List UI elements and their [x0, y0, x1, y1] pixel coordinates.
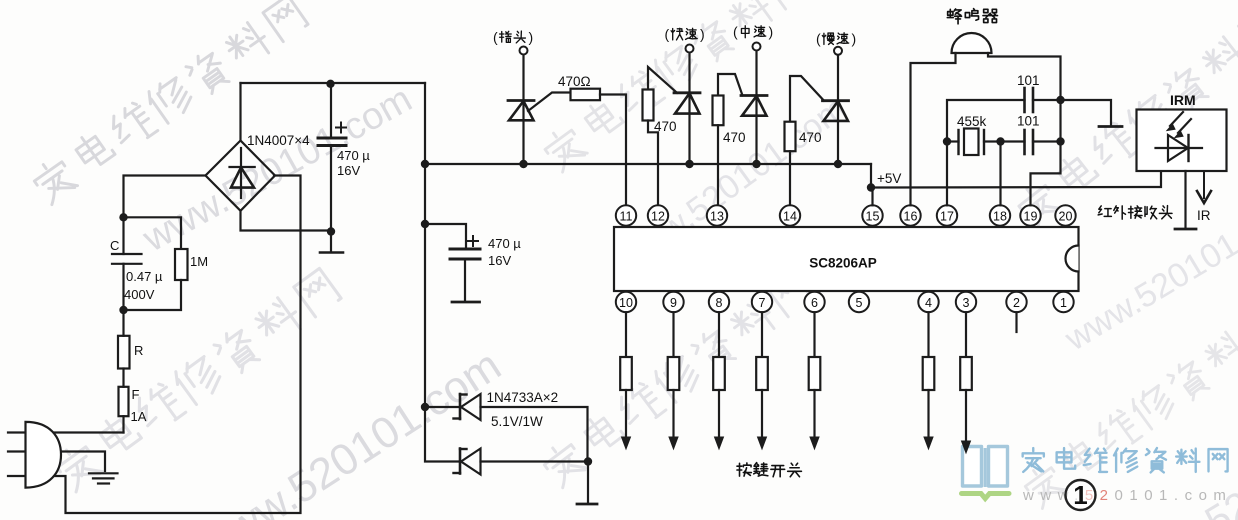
- svg-text:5.1V/1W: 5.1V/1W: [491, 414, 543, 429]
- wire: pin 18 to crystal: [999, 142, 1001, 206]
- svg-text:16: 16: [904, 209, 918, 223]
- wire: bridge + output to top rail: [239, 83, 241, 141]
- ground: zener ground: [587, 462, 589, 504]
- pin 7: [752, 292, 772, 312]
- node: rail/C2 junction: [421, 220, 429, 228]
- wire: +5V rail to IRM: [871, 171, 1161, 188]
- svg-text:13: 13: [710, 209, 724, 223]
- svg-text:470: 470: [723, 130, 746, 145]
- svg-text:F: F: [132, 387, 140, 402]
- arrow to key switch: [813, 390, 815, 439]
- svg-text:): ): [769, 24, 774, 40]
- pin 2: [1006, 292, 1026, 312]
- wire: mains bottom prong / bottom rail up to bridge: [8, 176, 301, 514]
- wire: bridge - output to C1: [241, 211, 332, 231]
- ground: oscillator ground bar: [1099, 125, 1122, 128]
- gate wire SCR3: [718, 74, 743, 96]
- terminal circle: fan output: [686, 45, 694, 53]
- svg-text:470 µ: 470 µ: [337, 148, 370, 163]
- svg-text:IR: IR: [1197, 208, 1211, 223]
- pin 20: [1055, 205, 1075, 225]
- svg-text:470: 470: [799, 130, 822, 145]
- svg-text:400V: 400V: [124, 287, 155, 302]
- node: rail/zener junction: [421, 403, 429, 411]
- IRM module box: [1137, 110, 1227, 172]
- svg-text:101: 101: [1017, 114, 1040, 129]
- pin 16: [900, 205, 920, 225]
- crystal X 455k: [964, 129, 979, 156]
- svg-text:3: 3: [963, 296, 970, 310]
- capacitor 101 top: [1023, 88, 1026, 112]
- wire: IRM output lead down: [1184, 171, 1186, 228]
- node: crystal left: [943, 137, 951, 145]
- svg-text:IRM: IRM: [1170, 92, 1196, 108]
- node: zener cathode junction: [584, 457, 592, 465]
- svg-text:9: 9: [670, 296, 677, 310]
- svg-text:R: R: [134, 343, 143, 358]
- pin 15: [862, 205, 882, 225]
- svg-text:470Ω: 470Ω: [558, 74, 591, 89]
- key-switch resistor at pin x=626: [625, 312, 627, 357]
- wire: pin 2 stub: [1015, 312, 1017, 332]
- resistor 470 (SCR3 gate): [713, 96, 724, 126]
- arrow to key switch: [761, 390, 763, 439]
- pin 4: [918, 292, 938, 312]
- svg-text:0.47 µ: 0.47 µ: [126, 269, 163, 284]
- svg-text:1: 1: [1060, 296, 1067, 310]
- svg-text:(: (: [493, 29, 498, 45]
- svg-text:101: 101: [1017, 73, 1040, 88]
- resistor R: [118, 336, 130, 369]
- node: SCR anode on bus: [519, 160, 527, 168]
- svg-text:16V: 16V: [488, 253, 511, 268]
- wire: mains top prong to fuse: [8, 431, 124, 433]
- thyristor at x=689.5: [674, 91, 700, 94]
- svg-text:1N4007×4: 1N4007×4: [247, 133, 310, 148]
- node: top rail / C1: [326, 80, 334, 88]
- photodiode inside IRM: [1156, 147, 1203, 149]
- svg-text:): ): [700, 26, 705, 42]
- resistor 470 ohm (SCR1 gate): [571, 89, 601, 101]
- pin 17: [937, 205, 957, 225]
- key-switch resistor at pin x=762: [761, 312, 763, 357]
- resistor 1M: [124, 217, 182, 249]
- svg-text:www.520101.com: www.520101.com: [1058, 187, 1238, 358]
- ground: IRM ground: [1175, 228, 1196, 231]
- node: +5V node: [867, 183, 875, 191]
- node: SCR anode on bus: [834, 160, 842, 168]
- pin 10: [616, 292, 636, 312]
- wire: bridge AC left: [124, 176, 206, 218]
- logo book icon: [963, 447, 982, 487]
- wire: pin 17 to crystal: [946, 142, 948, 206]
- svg-text:C: C: [110, 238, 119, 253]
- svg-text:8: 8: [716, 296, 723, 310]
- svg-text:(: (: [665, 26, 670, 42]
- zener D2 1N4733A: [425, 407, 460, 462]
- resistor 470 (SCR4 gate): [785, 122, 796, 152]
- svg-text:): ): [529, 29, 534, 45]
- gate wire SCR1 to R 470ohm: [528, 93, 571, 112]
- key-switch resistor at pin x=719: [718, 312, 720, 357]
- gate wire SCR2: [648, 67, 677, 93]
- node: caps right top: [1056, 96, 1064, 104]
- terminal circle: fan output: [834, 47, 842, 55]
- pin 14: [780, 205, 800, 225]
- bridge rectifier 1N4007 x4: [206, 141, 276, 211]
- pin 1: [1053, 292, 1073, 312]
- svg-text:17: 17: [940, 209, 954, 223]
- arrow: IR indicator: [1203, 171, 1205, 198]
- thyristor at x=523.5: [508, 99, 534, 102]
- capacitor C2 470u 16V electrolytic: [425, 224, 466, 249]
- arrow to key switch (pin 3, over logo): [962, 390, 971, 453]
- svg-text:1N4733A×2: 1N4733A×2: [487, 390, 559, 405]
- svg-text:12: 12: [651, 209, 665, 223]
- wire: top cap node to ground: [1061, 100, 1112, 126]
- wire: 470 to pin 13: [717, 125, 719, 205]
- capacitor 101 bottom: [1023, 130, 1026, 154]
- IC U1 SC8206AP: [614, 227, 1079, 291]
- buzzer: [952, 33, 992, 53]
- thyristor at x=838: [823, 99, 849, 102]
- svg-text:16V: 16V: [337, 163, 360, 178]
- wire: +V bus to SCR anodes: [425, 163, 871, 165]
- node: rail/bus junction: [421, 160, 429, 168]
- node: C1 negative: [327, 227, 335, 235]
- svg-text:SC8206AP: SC8206AP: [809, 256, 877, 271]
- circled 1 figure number: [1066, 480, 1096, 510]
- svg-text:6: 6: [811, 296, 818, 310]
- svg-text:7: 7: [759, 296, 766, 310]
- label: infrared receiver: [1098, 206, 1111, 217]
- wire: +5V to pin 15: [871, 188, 873, 206]
- ground: C1 ground bar: [330, 232, 332, 252]
- wire: R top to C node: [122, 310, 124, 336]
- wire: 470 to pin 14: [789, 151, 791, 205]
- thyristor at x=756.5: [741, 94, 767, 97]
- svg-text:19: 19: [1024, 209, 1038, 223]
- svg-text:20: 20: [1059, 209, 1073, 223]
- plug P1 (AC plug body): [26, 422, 62, 488]
- zener D1 1N4733A: [425, 406, 460, 408]
- node: crystal right: [996, 137, 1004, 145]
- wire: 470ohm to pin 11: [600, 95, 626, 206]
- wire: buzzer right to caps: [988, 53, 1061, 100]
- logo text: [1023, 448, 1044, 472]
- label: key switches: [737, 463, 751, 476]
- capacitor C1 470u 16V electrolytic: [330, 83, 332, 138]
- pin 12: [648, 205, 668, 225]
- svg-text:): ): [852, 31, 857, 47]
- key-switch resistor at pin x=673.5: [672, 312, 674, 357]
- arrow to key switch: [718, 390, 720, 439]
- svg-text:18: 18: [993, 209, 1007, 223]
- pin 5: [849, 292, 869, 312]
- arrow to key switch: [625, 390, 627, 439]
- fuse F 1A: [119, 387, 129, 416]
- key-switch resistor at pin x=814.5: [813, 312, 815, 357]
- key-switch resistor at pin x=928.5: [927, 312, 929, 357]
- svg-text:4: 4: [925, 296, 932, 310]
- svg-text:1: 1: [1073, 480, 1087, 510]
- pin 8: [709, 292, 729, 312]
- ground: C2 ground bar: [452, 301, 480, 304]
- svg-text:10: 10: [619, 296, 633, 310]
- svg-text:5: 5: [856, 296, 863, 310]
- svg-text:1A: 1A: [131, 409, 147, 424]
- svg-text:(: (: [816, 31, 821, 47]
- pin 6: [804, 292, 824, 312]
- wire: right column between caps: [1059, 100, 1061, 142]
- node: C top junction: [119, 213, 127, 221]
- wire: buzzer left to pin 16: [911, 53, 956, 205]
- key-switch resistor at pin x=966: [965, 312, 967, 357]
- wire: +rail vertical (top rail down to zeners): [424, 83, 426, 407]
- pin 18: [990, 205, 1010, 225]
- pin 3: [956, 292, 976, 312]
- terminal circle: fan output: [753, 43, 761, 51]
- svg-text:+5V: +5V: [877, 171, 901, 186]
- wire: bus right end down to +5V node: [870, 164, 872, 188]
- pin 13: [707, 205, 727, 225]
- pin 9: [663, 292, 683, 312]
- arrow to key switch: [927, 390, 929, 439]
- svg-text:1M: 1M: [190, 254, 208, 269]
- node: C bottom junction: [119, 306, 127, 314]
- pin 19: [1020, 205, 1040, 225]
- node: SCR anode on bus: [752, 160, 760, 168]
- terminal circle: fan output: [520, 47, 528, 55]
- svg-text:2: 2: [1013, 296, 1020, 310]
- IR arrows into diode: [1170, 112, 1183, 126]
- arrow to key switch: [672, 390, 674, 439]
- gate wire SCR4: [790, 76, 824, 122]
- svg-text:455k: 455k: [957, 114, 987, 129]
- wire: mains middle prong to earth: [8, 452, 105, 472]
- node: caps right bottom: [1056, 137, 1064, 145]
- svg-text:15: 15: [866, 209, 880, 223]
- capacitor C 0.47u 400V: [122, 217, 124, 254]
- resistor 470 (SCR2 gate): [643, 90, 654, 121]
- wire: 470 to pin 12: [648, 121, 658, 206]
- pin 11: [616, 205, 636, 225]
- svg-text:11: 11: [620, 209, 633, 223]
- svg-text:www.520101.com: www.520101.com: [1022, 487, 1232, 504]
- svg-text:14: 14: [783, 209, 797, 223]
- node: SCR anode on bus: [685, 160, 693, 168]
- svg-text:470 µ: 470 µ: [488, 236, 521, 251]
- svg-text:(: (: [733, 24, 738, 40]
- ground: earth symbol at plug: [89, 472, 118, 474]
- wire: pin 19 jog to caps: [1031, 142, 1061, 206]
